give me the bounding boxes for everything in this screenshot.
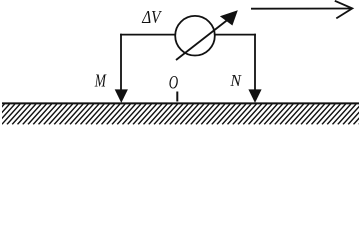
wire (left vertical from top wire down to contact M)	[120, 34, 122, 91]
voltmeter pointer arrow (diagonal through meter)	[176, 10, 238, 60]
svg-text:M: M	[94, 71, 107, 91]
ground hatching	[0, 104, 363, 125]
voltmeter circle (meter body)	[175, 16, 215, 56]
wire (right vertical from top wire down to contact N)	[254, 34, 256, 91]
ground rail surface line	[2, 102, 359, 104]
svg-text:N: N	[229, 71, 242, 90]
contact arrow at M (filled arrowhead touching rail)	[115, 89, 128, 103]
origin tick mark at O	[176, 92, 178, 102]
wire (top horizontal between M and N posts)	[120, 34, 256, 36]
contact arrow at N (filled arrowhead touching rail)	[248, 89, 261, 103]
velocity arrow v (top right)	[251, 1, 352, 19]
svg-text:O: O	[169, 73, 179, 94]
svg-text:ΔV: ΔV	[141, 7, 162, 27]
